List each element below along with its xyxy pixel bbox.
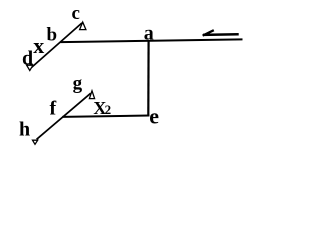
arrowhead at c end (open triangle, apex up)	[80, 22, 86, 30]
svg-text:x: x	[33, 33, 44, 58]
wire: lower slanted line h to g	[37, 93, 91, 139]
arrowhead at h end (open triangle, apex down)	[33, 140, 38, 144]
svg-text:e: e	[149, 104, 159, 129]
arrow at top right: barb	[203, 30, 214, 35]
svg-text:c: c	[72, 3, 80, 24]
svg-text:2: 2	[105, 102, 112, 117]
svg-text:a: a	[144, 22, 154, 44]
wire: top horizontal line from slant crossing to right side	[60, 39, 242, 42]
arrowhead at g end (open triangle, apex up)	[89, 91, 94, 99]
svg-text:h: h	[19, 118, 30, 140]
svg-text:b: b	[47, 24, 58, 45]
svg-text:f: f	[50, 98, 57, 120]
svg-text:g: g	[73, 73, 83, 94]
wire: bottom horizontal line from slant crossing to e	[62, 116, 149, 117]
svg-text:d: d	[22, 48, 33, 70]
wire: upper slanted line d to c	[32, 23, 82, 68]
arrowhead at d end (open triangle, apex down)	[27, 65, 33, 70]
wire: vertical line from a down to e	[147, 40, 150, 116]
arrow at top right pointing left: shaft	[203, 33, 239, 36]
